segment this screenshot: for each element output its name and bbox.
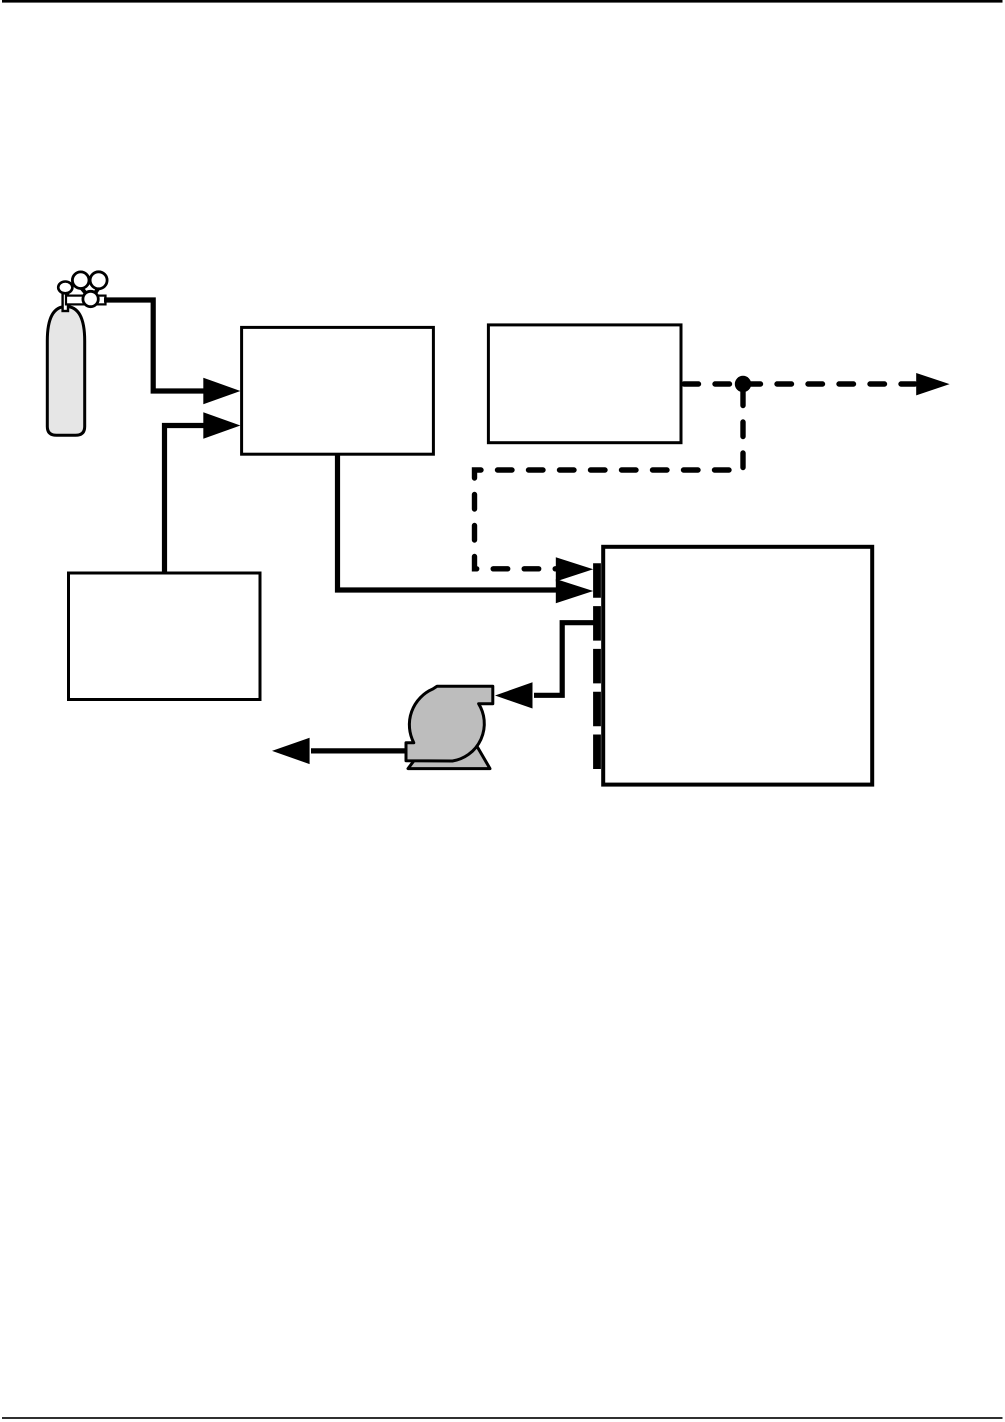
wire cylinder to box1	[104, 300, 206, 391]
dashed wire box2 to right exit	[684, 381, 915, 386]
gauge circle small left	[58, 282, 72, 294]
regulator pipe	[66, 296, 106, 305]
arrowhead dashed right exit	[916, 373, 949, 395]
pump base	[408, 742, 490, 769]
box2	[488, 325, 681, 443]
arrowhead dashed into chamber	[556, 557, 593, 581]
regulator stem left gauge link	[81, 288, 89, 298]
regulator stem right gauge link	[93, 288, 99, 297]
top rule	[2, 0, 1003, 3]
chamber left port dashes	[593, 563, 601, 769]
box3	[69, 573, 261, 700]
junction dot	[735, 376, 751, 392]
wire box1 to chamber	[338, 455, 559, 590]
pump outlet wire	[311, 748, 406, 753]
dashed wire junction to chamber	[475, 391, 744, 569]
regulator valve body circle	[83, 291, 98, 306]
pump body	[406, 686, 493, 761]
arrowhead pump outlet	[272, 738, 310, 764]
box1	[242, 327, 434, 454]
gauge circle top right	[90, 272, 107, 289]
arrowhead into pump	[495, 682, 533, 708]
bottom rule	[2, 1417, 1003, 1419]
arrowhead into box1 lower	[203, 412, 240, 439]
arrowhead into box1 top	[203, 378, 240, 405]
cylinder neck	[63, 292, 68, 312]
gauge circle top middle	[72, 272, 89, 289]
gas cylinder body	[47, 307, 84, 436]
wire chamber to pump	[534, 623, 600, 696]
wire box3 to box1	[165, 426, 207, 573]
chamber box	[603, 547, 872, 785]
arrowhead solid into chamber	[556, 579, 593, 603]
